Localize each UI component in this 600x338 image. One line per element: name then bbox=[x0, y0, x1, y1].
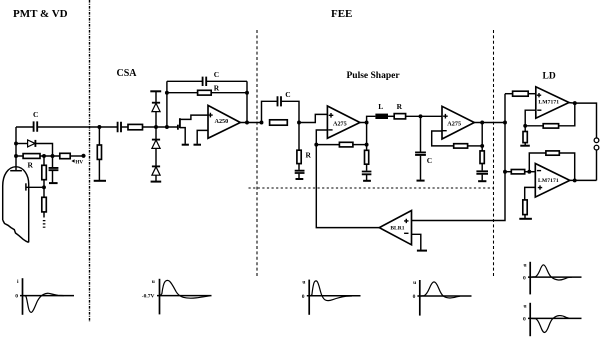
svg-text:0: 0 bbox=[523, 275, 526, 281]
feedback vertical left bbox=[166, 81, 168, 127]
svg-text:u: u bbox=[524, 303, 527, 309]
ground bbox=[520, 145, 530, 147]
op-amp A250 bbox=[208, 105, 240, 138]
wire to A275 first bbox=[299, 114, 327, 122]
wire BLR - input to ground bbox=[412, 234, 421, 250]
resistor to HV bbox=[60, 153, 70, 158]
resistor R feedback bbox=[167, 92, 198, 94]
waveform plot 1 PMT current bbox=[15, 278, 74, 315]
resistor feedback A275 first bbox=[316, 144, 339, 146]
capacitor pole-zero bbox=[298, 164, 300, 170]
op-amp LM7171 first bbox=[536, 87, 569, 118]
svg-text:0: 0 bbox=[302, 294, 305, 300]
label HV bbox=[71, 159, 74, 162]
svg-text:C: C bbox=[285, 90, 290, 99]
boundary dashed line FEE right bbox=[493, 30, 495, 277]
node LM first output bbox=[573, 101, 577, 105]
resistor input bias to ground bbox=[98, 127, 100, 145]
waveform plot 2 CSA output bbox=[142, 279, 212, 315]
wire LM first output bbox=[569, 103, 597, 138]
svg-text:u: u bbox=[524, 262, 527, 268]
op-amp BLR1 bbox=[379, 211, 411, 245]
terminal diode column top bbox=[150, 90, 161, 92]
node differentiator output bbox=[297, 121, 301, 125]
node cap tap bbox=[51, 154, 55, 158]
node diode tap bbox=[14, 142, 18, 146]
svg-text:A250: A250 bbox=[215, 118, 229, 125]
svg-text:A275: A275 bbox=[333, 120, 347, 127]
svg-text:PMT & VD: PMT & VD bbox=[13, 8, 68, 20]
dynode chain resistor R2 bbox=[42, 197, 47, 212]
boundary dashed line FEE left bbox=[256, 30, 258, 277]
svg-text:u: u bbox=[302, 280, 305, 286]
resistor series bbox=[394, 114, 405, 119]
diode protection lower 2 bbox=[152, 165, 160, 167]
svg-text:CSA: CSA bbox=[117, 68, 138, 79]
ground bbox=[296, 178, 304, 180]
wire LM second output bbox=[570, 179, 597, 181]
resistor differentiator bbox=[270, 120, 288, 125]
node LM second output bbox=[573, 178, 577, 182]
waveform plot 3 shaper stage1 bbox=[302, 280, 361, 315]
ground bbox=[417, 250, 427, 252]
node A275 first output bbox=[365, 121, 369, 125]
svg-text:BLR1: BLR1 bbox=[390, 226, 404, 232]
svg-text:LM7171: LM7171 bbox=[538, 178, 559, 184]
svg-text:C: C bbox=[214, 70, 219, 79]
capacitor integrator to ground bbox=[420, 116, 422, 151]
svg-text:A275: A275 bbox=[447, 121, 461, 128]
PMT photocathode bbox=[10, 170, 22, 172]
wire - input to ground bbox=[197, 130, 208, 144]
svg-text:HV: HV bbox=[75, 159, 83, 165]
op-amp A275 first bbox=[327, 106, 360, 138]
resistor LD lower input bbox=[505, 171, 511, 173]
output connector top bbox=[594, 138, 599, 143]
node feedback R left bbox=[165, 91, 169, 95]
svg-text:u: u bbox=[413, 280, 416, 286]
svg-text:R: R bbox=[397, 102, 403, 111]
resistor load to ground bbox=[366, 145, 368, 151]
resistor pole-zero to ground bbox=[298, 123, 300, 151]
dynode chain resistor R1 bbox=[43, 156, 45, 165]
boundary dash-dot line PMT/CSA bbox=[89, 0, 91, 322]
terminal diode column bottom bbox=[151, 181, 162, 183]
svg-text:LD: LD bbox=[543, 72, 556, 82]
terminal HV bbox=[81, 154, 85, 158]
diode protection lower 1 bbox=[155, 127, 157, 139]
svg-text:-0.7V: -0.7V bbox=[142, 294, 155, 300]
resistor LM second + to ground bbox=[523, 200, 527, 215]
node diode column bbox=[154, 125, 158, 129]
node LM second - input bbox=[527, 170, 531, 174]
node feedback right bbox=[365, 143, 369, 147]
capacitor series input bbox=[99, 126, 117, 128]
node LM first - bbox=[523, 124, 527, 128]
node differentiator input bbox=[260, 121, 264, 125]
wire HV input to photocathode bbox=[15, 127, 17, 170]
waveform plot 6 LD output negative bbox=[523, 303, 582, 336]
node CSA output bbox=[245, 121, 249, 125]
resistor feedback LM first bbox=[525, 125, 543, 127]
svg-text:C: C bbox=[33, 110, 38, 119]
node LD lower input bbox=[503, 170, 507, 174]
wire BLR output to A275 first - node bbox=[316, 145, 379, 228]
ground bbox=[194, 144, 202, 146]
ground bbox=[94, 180, 106, 182]
capacitor C differentiator bbox=[262, 101, 277, 122]
boundary dotted line FEE bottom bbox=[249, 187, 494, 189]
svg-text:0: 0 bbox=[413, 294, 416, 300]
node feedback tap bbox=[165, 125, 169, 129]
resistor LD top input bbox=[505, 93, 513, 95]
wire shaper output down to BLR bbox=[412, 94, 506, 221]
svg-text:R: R bbox=[306, 151, 312, 160]
node dynode chain top bbox=[42, 154, 46, 158]
wire JFET source to ground bbox=[180, 128, 185, 144]
node feedback R right bbox=[245, 91, 249, 95]
resistor feedback LM second bbox=[529, 153, 546, 172]
capacitor filter to ground bbox=[52, 156, 54, 167]
dynode chain continuation dots bbox=[43, 221, 46, 228]
resistor feedback A275 second bbox=[454, 144, 468, 148]
svg-text:FEE: FEE bbox=[331, 8, 352, 20]
feedback vertical right bbox=[246, 81, 248, 122]
svg-text:L: L bbox=[378, 102, 383, 111]
resistor R anode bbox=[16, 155, 23, 157]
capacitor load bbox=[362, 172, 372, 175]
svg-text:0: 0 bbox=[523, 317, 526, 323]
resistor LM first to ground bbox=[524, 126, 526, 132]
node R row tap bbox=[14, 154, 18, 158]
waveform plot 5 LD output positive bbox=[523, 262, 582, 295]
capacitor load second bbox=[476, 171, 488, 174]
dynode electrode bbox=[26, 186, 44, 188]
resistor load second to ground bbox=[481, 146, 483, 151]
wire JFET drain to + input bbox=[180, 115, 208, 119]
ground bbox=[182, 144, 189, 146]
resistor series input bbox=[128, 124, 143, 129]
node dynode tap bbox=[42, 185, 46, 189]
transistor JFET gate bbox=[177, 125, 179, 130]
svg-text:Pulse Shaper: Pulse Shaper bbox=[347, 71, 401, 81]
node feedback second bbox=[480, 144, 484, 148]
svg-text:C: C bbox=[427, 156, 432, 165]
svg-text:u: u bbox=[152, 279, 155, 285]
svg-text:R: R bbox=[214, 84, 220, 93]
diode D1 bbox=[16, 143, 28, 145]
ground bbox=[478, 180, 486, 182]
svg-text:LM7171: LM7171 bbox=[538, 99, 559, 105]
ground bbox=[417, 180, 425, 182]
output connector bottom bbox=[594, 145, 599, 150]
node integrator C bbox=[419, 114, 423, 118]
capacitor C feedback bbox=[167, 80, 202, 82]
wire + input to resistor ground bbox=[525, 187, 536, 200]
wire - input to feedback node bbox=[316, 130, 327, 145]
PMT tube envelope bbox=[3, 167, 29, 243]
waveform plot 4 shaper stage2 bbox=[413, 280, 472, 316]
op-amp LM7171 second bbox=[535, 164, 570, 198]
node A275 second output bbox=[480, 121, 484, 125]
node CSA input bbox=[97, 125, 101, 129]
inductor L bbox=[367, 116, 376, 122]
capacitor C anode coupling bbox=[16, 126, 33, 128]
op-amp A275 second bbox=[442, 106, 474, 139]
wire - input to node bbox=[525, 110, 536, 126]
ground bbox=[363, 180, 371, 182]
ground bbox=[519, 218, 532, 220]
wire - input to feedback bbox=[432, 131, 454, 146]
node feedback A275 first bbox=[314, 143, 318, 147]
transistor JFET channel bbox=[179, 118, 181, 128]
node LD input bbox=[503, 121, 507, 125]
wire CSA output bbox=[240, 122, 261, 124]
svg-text:R: R bbox=[28, 161, 34, 170]
svg-text:0: 0 bbox=[15, 294, 18, 300]
diode protection upper bbox=[155, 91, 157, 102]
